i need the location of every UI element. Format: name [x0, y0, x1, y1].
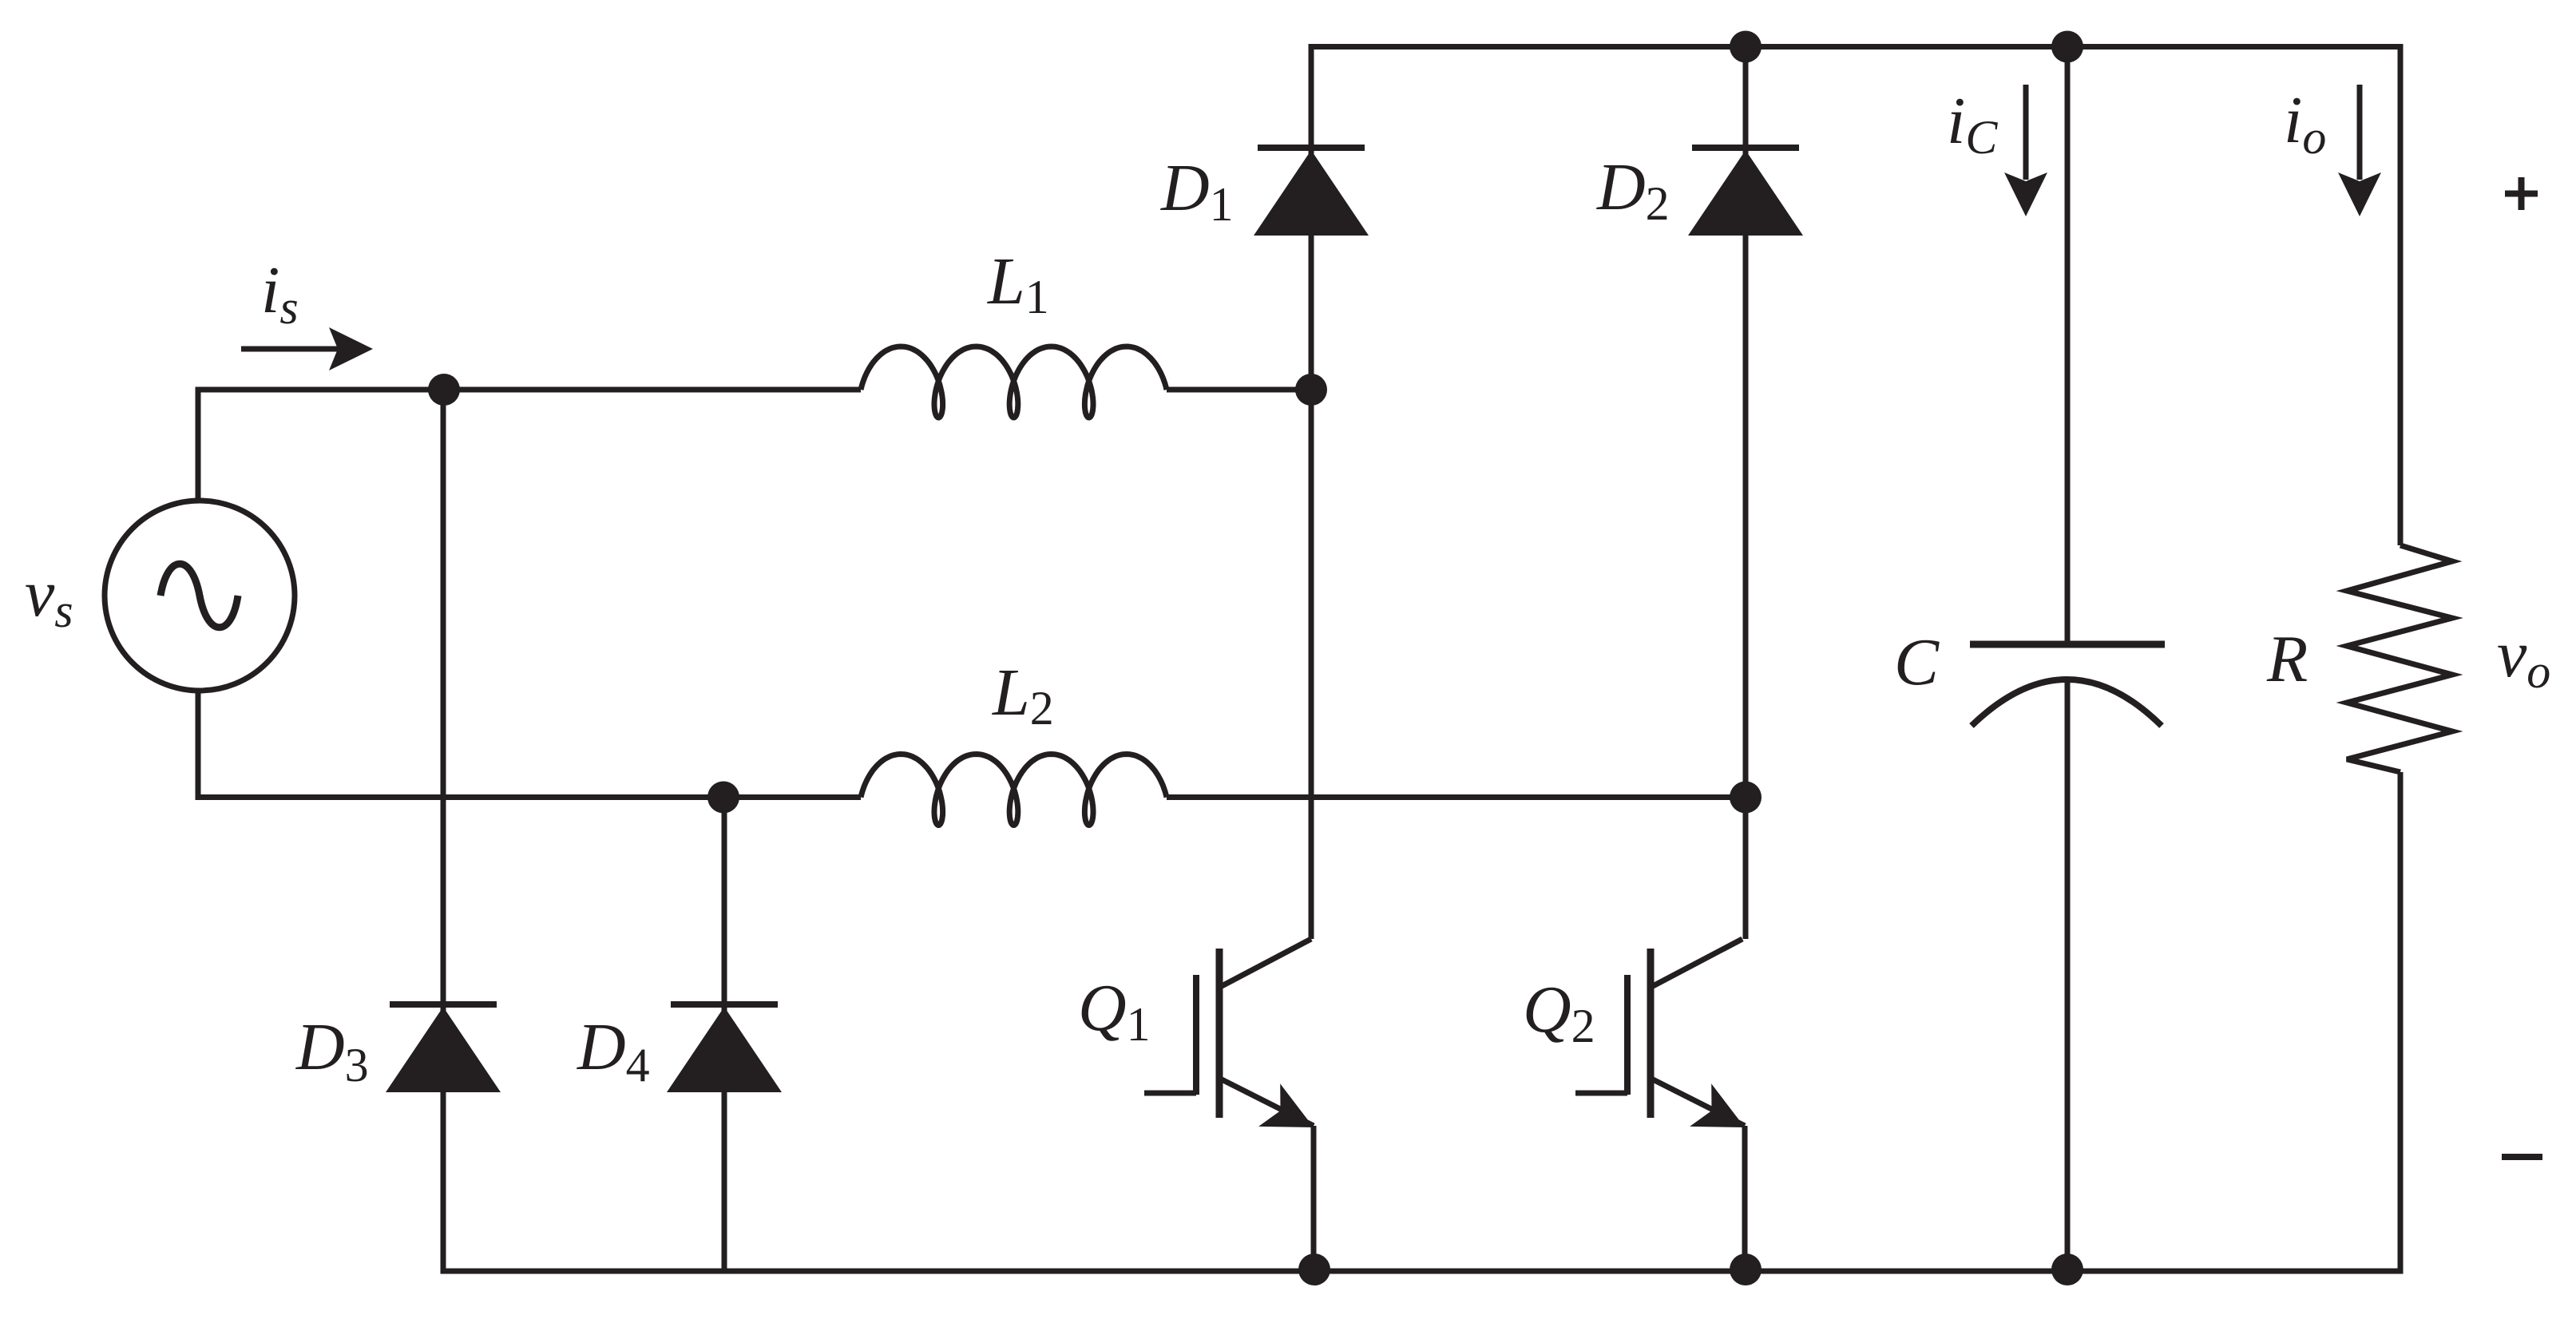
inductor L2: [861, 755, 1167, 826]
voltage source vs: [105, 501, 295, 691]
diode D4: [671, 1001, 778, 1008]
wire Q1 emitter to rail: [1311, 1126, 1317, 1271]
wire capacitor branch lower: [2065, 681, 2071, 1271]
minus sign: [2502, 1154, 2542, 1160]
inductor L1: [861, 347, 1167, 418]
diode D1: [1258, 145, 1365, 151]
svg-text:D2: D2: [1596, 150, 1670, 230]
transistor Q2: [1647, 949, 1655, 1118]
wire D3 branch: [441, 390, 446, 1271]
node capacitor top junction: [2051, 31, 2083, 63]
node D2 top junction: [1730, 31, 1762, 63]
svg-text:Q2: Q2: [1523, 972, 1595, 1052]
arrow is: [241, 347, 339, 352]
svg-text:io: io: [2284, 83, 2326, 164]
wire L2 to Q2 branch: [1167, 794, 1746, 800]
node Q2 emitter junction: [1730, 1254, 1762, 1285]
arrow io: [2357, 85, 2363, 180]
svg-text:iC: iC: [1947, 84, 1998, 164]
node L2-Q2 junction: [1730, 782, 1762, 814]
wire D1/Q1 branch: [1309, 44, 1314, 939]
wire D4 branch: [722, 798, 727, 1272]
wire L1 to D1 branch: [1167, 387, 1311, 393]
svg-text:L2: L2: [992, 656, 1054, 735]
node L1-D1 junction: [1295, 374, 1327, 406]
wire node B to L2: [723, 794, 861, 800]
wire top rail: [1311, 44, 2404, 50]
node capacitor bottom junction: [2051, 1254, 2083, 1285]
wire bottom rail: [441, 1269, 2401, 1274]
wire source bottom lead: [198, 691, 723, 798]
svg-text:C: C: [1894, 625, 1940, 699]
svg-text:D1: D1: [1160, 151, 1234, 231]
svg-text:R: R: [2266, 622, 2308, 696]
svg-text:Q1: Q1: [1078, 971, 1151, 1051]
transistor Q1: [1216, 949, 1223, 1118]
wire right edge lower: [2398, 772, 2404, 1274]
resistor R: [2347, 545, 2452, 772]
node B junction (source to L2/D4): [707, 782, 739, 814]
plus sign: [2505, 177, 2538, 210]
wire Q2 emitter to rail: [1742, 1126, 1748, 1271]
wire right edge upper: [2398, 44, 2404, 545]
wire D2/Q2 branch: [1743, 47, 1749, 940]
svg-text:D4: D4: [577, 1010, 650, 1091]
svg-text:D3: D3: [295, 1010, 369, 1091]
svg-text:is: is: [261, 253, 299, 334]
diode D3: [390, 1001, 497, 1008]
arrow iC: [2023, 85, 2029, 180]
wire node A to L1: [444, 387, 861, 393]
wire capacitor branch upper: [2065, 47, 2071, 645]
svg-text:L1: L1: [987, 244, 1049, 323]
svg-text:vo: vo: [2497, 617, 2550, 698]
diode D2: [1692, 145, 1799, 151]
wire source top lead: [198, 390, 444, 501]
node Q1 emitter junction: [1298, 1254, 1330, 1285]
capacitor C: [1970, 641, 2165, 648]
svg-text:vs: vs: [25, 557, 73, 637]
node A junction: [428, 374, 460, 406]
